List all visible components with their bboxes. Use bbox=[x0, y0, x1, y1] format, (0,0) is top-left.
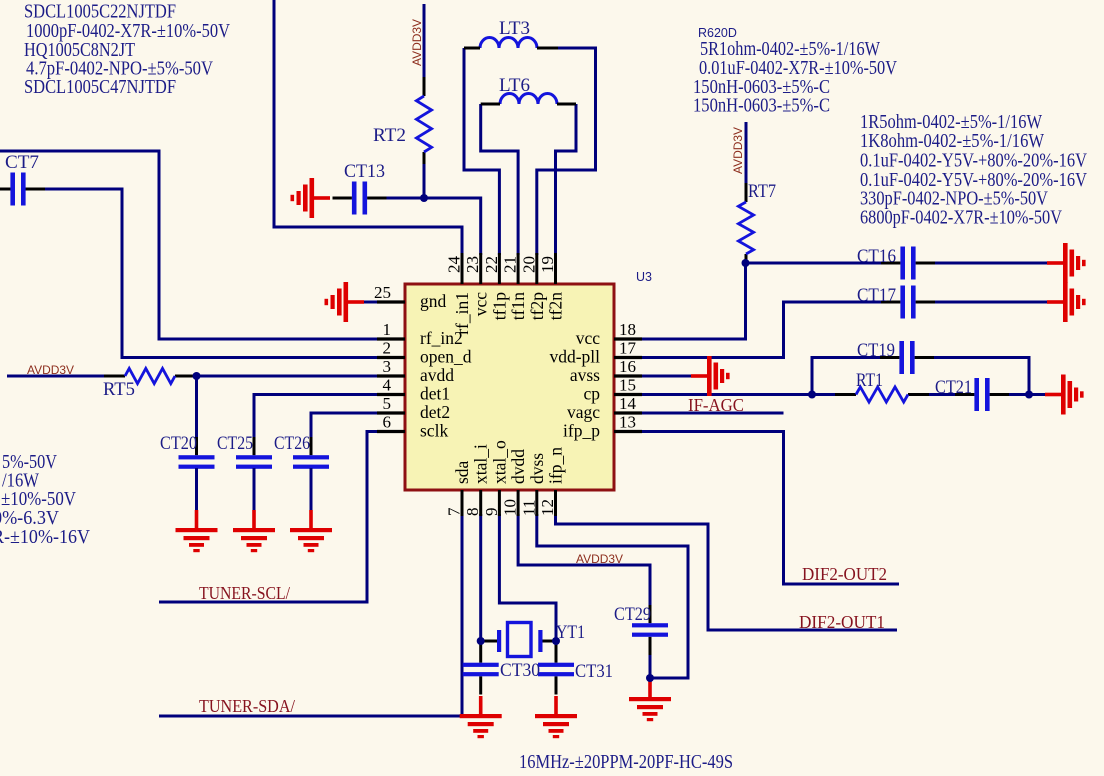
svg-text:11: 11 bbox=[519, 500, 538, 516]
svg-text:7: 7 bbox=[445, 507, 464, 516]
svg-text:LT6: LT6 bbox=[499, 76, 530, 96]
wire AVDD3V to RT5 bbox=[7, 375, 105, 378]
svg-text:tf2p: tf2p bbox=[527, 292, 547, 320]
IC top pin stubs bbox=[462, 253, 556, 284]
wire pin 4 (det1) to CT25 bbox=[254, 395, 379, 449]
svg-text:330pF-0402-NPO-±5%-50V: 330pF-0402-NPO-±5%-50V bbox=[860, 189, 1048, 210]
ground at CT16 bbox=[1047, 243, 1086, 283]
wire pin 10 (dvdd) AVDD3V to CT29 bbox=[518, 514, 650, 614]
wire top-left net down to pin 24 (rf_in1) bbox=[274, 0, 462, 255]
svg-text:CT29: CT29 bbox=[614, 605, 651, 625]
svg-text:ifp_p: ifp_p bbox=[563, 421, 600, 441]
inductor LT6 left pin bbox=[481, 103, 500, 106]
svg-text:xtal_i: xtal_i bbox=[471, 444, 491, 484]
svg-text:RT1: RT1 bbox=[856, 371, 883, 391]
op-amp U3 IC body bbox=[405, 284, 614, 490]
svg-text:16MHz-±20PPM-20PF-HC-49S: 16MHz-±20PPM-20PF-HC-49S bbox=[519, 752, 733, 773]
inductor LT3 left pin bbox=[464, 47, 480, 50]
svg-text:CT26: CT26 bbox=[274, 434, 310, 454]
svg-text:1K8ohm-0402-±5%-1/16W: 1K8ohm-0402-±5%-1/16W bbox=[860, 131, 1045, 152]
junction CT29/ground bbox=[646, 674, 654, 682]
svg-text:CT25: CT25 bbox=[217, 434, 253, 454]
svg-text:R620D: R620D bbox=[698, 26, 737, 40]
capacitor CT13 bbox=[333, 182, 387, 215]
svg-text:19: 19 bbox=[538, 256, 557, 273]
wire pin 8 (xtal_i) down to crystal left bbox=[479, 514, 482, 641]
svg-text:IF-AGC: IF-AGC bbox=[688, 395, 744, 415]
wire CT19 to right junction bbox=[934, 358, 1029, 395]
capacitor CT25 bbox=[236, 437, 272, 487]
svg-text:SDCL1005C22NJTDF: SDCL1005C22NJTDF bbox=[24, 2, 176, 23]
wire pin 15 (cp) to RT1 bbox=[612, 393, 835, 396]
wire loop-filter junction up to CT19 bbox=[812, 358, 880, 395]
svg-text:RT5: RT5 bbox=[103, 380, 135, 400]
junction crystal left bbox=[477, 637, 485, 645]
ground at pin 25 bbox=[325, 282, 365, 322]
resistor RT1 bbox=[835, 387, 929, 402]
capacitor CT29 bbox=[632, 605, 668, 655]
wire junction down to CT20 bbox=[195, 376, 198, 448]
svg-text:18: 18 bbox=[619, 320, 636, 339]
ground below CT25 bbox=[233, 510, 275, 552]
wire CT26 to ground bbox=[310, 468, 313, 510]
svg-text:R-±10%-16V: R-±10%-16V bbox=[0, 527, 90, 548]
svg-text:0.1uF-0402-Y5V-+80%-20%-16V: 0.1uF-0402-Y5V-+80%-20%-16V bbox=[860, 151, 1087, 172]
svg-text:rf_in1: rf_in1 bbox=[452, 292, 472, 335]
wire CT13 junction to pin 23 (vcc) bbox=[383, 198, 481, 255]
capacitor CT26 bbox=[293, 437, 329, 487]
capacitor CT7 bbox=[0, 173, 45, 206]
ground below CT31 bbox=[535, 696, 577, 738]
svg-text:16: 16 bbox=[619, 357, 636, 376]
svg-text:dvdd: dvdd bbox=[508, 449, 528, 484]
wire LT3 right leg to pin 20 (tf2p) bbox=[537, 48, 596, 255]
svg-text:13: 13 bbox=[619, 413, 636, 432]
svg-text:3: 3 bbox=[383, 357, 392, 376]
wire CT7 to pin 2 (open_d) bbox=[25, 189, 379, 358]
svg-text:tf1n: tf1n bbox=[508, 292, 528, 320]
capacitor CT19 bbox=[880, 341, 934, 374]
svg-text:1R5ohm-0402-±5%-1/16W: 1R5ohm-0402-±5%-1/16W bbox=[860, 112, 1042, 133]
svg-text:AVDD3V: AVDD3V bbox=[410, 19, 424, 66]
inductor LT3 bbox=[480, 38, 537, 48]
svg-text:CT7: CT7 bbox=[5, 153, 39, 173]
wire AVDD3V down to RT2 bbox=[423, 4, 426, 79]
wire RT5 to pin 3 (avdd) bbox=[196, 375, 379, 378]
svg-text:CT31: CT31 bbox=[575, 662, 613, 682]
wire CT25 to ground bbox=[253, 468, 256, 510]
svg-text:14: 14 bbox=[619, 394, 637, 413]
svg-text:1000pF-0402-X7R-±10%-50V: 1000pF-0402-X7R-±10%-50V bbox=[26, 21, 230, 42]
inductor LT6 right pin bbox=[557, 103, 576, 106]
svg-text:150nH-0603-±5%-C: 150nH-0603-±5%-C bbox=[693, 96, 830, 117]
svg-text:8: 8 bbox=[463, 508, 482, 517]
wire CT16 to ground bbox=[935, 262, 1047, 265]
svg-text:open_d: open_d bbox=[420, 347, 472, 367]
svg-text:RT7: RT7 bbox=[748, 182, 776, 202]
svg-text:6: 6 bbox=[383, 413, 392, 432]
capacitor CT31 bbox=[538, 645, 574, 695]
svg-text:AVDD3V: AVDD3V bbox=[731, 127, 745, 174]
junction RT5/pin3/CT20 bbox=[193, 372, 201, 380]
wire pin 17 (vdd-pll) to CT17 bbox=[612, 302, 881, 358]
junction RT2/CT13/pin23 bbox=[420, 194, 428, 202]
svg-text:17: 17 bbox=[619, 339, 637, 358]
wire CT29 to junction bbox=[649, 646, 652, 678]
wire CT7 left to sheet edge bbox=[0, 188, 11, 191]
ground below CT20 bbox=[176, 510, 218, 552]
svg-text:CT20: CT20 bbox=[160, 434, 197, 454]
svg-text:avss: avss bbox=[570, 365, 600, 385]
wire pin 9 (xtal_o) to crystal right bbox=[499, 514, 556, 641]
svg-text:5: 5 bbox=[383, 394, 392, 413]
svg-text:DIF2-OUT1: DIF2-OUT1 bbox=[799, 612, 885, 632]
svg-text:15: 15 bbox=[619, 376, 636, 395]
svg-text:cp: cp bbox=[583, 384, 600, 404]
wire TUNER-SDA to pin 7 (sda) bbox=[159, 514, 462, 716]
svg-text:1: 1 bbox=[383, 320, 392, 339]
wire net rf_in2 from CT7 top to pin 1 bbox=[0, 151, 379, 339]
capacitor CT17 bbox=[881, 286, 935, 319]
resistor RT7 bbox=[738, 183, 753, 266]
wire RT2 to junction bbox=[423, 164, 426, 198]
svg-text:vdd-pll: vdd-pll bbox=[549, 347, 600, 367]
svg-text:ifp_n: ifp_n bbox=[546, 447, 566, 484]
svg-text:YT1: YT1 bbox=[556, 623, 585, 643]
capacitor CT16 bbox=[881, 247, 935, 280]
wire CT20 to ground bbox=[195, 468, 198, 510]
ground below CT30 bbox=[460, 696, 502, 738]
inductor LT6 bbox=[500, 94, 557, 105]
IC right pin stubs bbox=[614, 339, 642, 432]
svg-text:23: 23 bbox=[463, 256, 482, 273]
svg-text:DIF2-OUT2: DIF2-OUT2 bbox=[802, 564, 887, 584]
wire pin 6 (sclk) to TUNER-SCL bbox=[159, 432, 379, 603]
junction crystal right bbox=[552, 637, 560, 645]
wire ground to pin 25 bbox=[364, 301, 379, 304]
svg-text:9: 9 bbox=[482, 508, 501, 517]
svg-text:AVDD3V: AVDD3V bbox=[576, 552, 623, 566]
capacitor CT30 bbox=[463, 645, 499, 695]
ground at pin 16 avss bbox=[691, 356, 730, 396]
wire LT3 left leg to pin 22 (tf1p) bbox=[464, 48, 499, 255]
svg-text:vcc: vcc bbox=[471, 292, 491, 317]
wire pin 5 (det2) to CT26 bbox=[311, 413, 379, 448]
svg-text:22: 22 bbox=[482, 256, 501, 273]
svg-text:AVDD3V: AVDD3V bbox=[27, 363, 74, 377]
junction cp/RT1/CT19 bbox=[808, 391, 816, 399]
svg-text:2: 2 bbox=[383, 339, 392, 358]
svg-text:±10%-50V: ±10%-50V bbox=[1, 489, 76, 510]
svg-text:LT3: LT3 bbox=[499, 19, 530, 39]
wire pin 11 (dvss) to CT29 bottom bbox=[537, 514, 688, 678]
wire pin 16 (avss) to ground bbox=[612, 375, 691, 378]
svg-text:vcc: vcc bbox=[576, 328, 601, 348]
wire CT17 to ground bbox=[935, 301, 1047, 304]
ground at CT13 bbox=[291, 178, 331, 218]
ground at CT21 bbox=[1045, 375, 1084, 415]
svg-text:CT13: CT13 bbox=[344, 162, 385, 182]
IC left pin stubs bbox=[377, 302, 405, 432]
capacitor CT20 bbox=[179, 437, 215, 487]
IC bottom pin stubs bbox=[462, 490, 556, 516]
svg-text:0%-6.3V: 0%-6.3V bbox=[0, 508, 59, 529]
svg-text:CT21: CT21 bbox=[935, 378, 972, 398]
svg-text:CT30: CT30 bbox=[500, 661, 540, 681]
svg-text:20: 20 bbox=[519, 256, 538, 273]
wire pin 13 (ifp_p) to DIF2-OUT2 bbox=[612, 432, 899, 585]
wire pin 14 (vagc) IF-AGC stub bbox=[612, 412, 784, 415]
svg-text:25: 25 bbox=[374, 283, 391, 302]
svg-text:21: 21 bbox=[501, 256, 520, 273]
junction CT21/CT19/ground bbox=[1025, 391, 1033, 399]
svg-text:vagc: vagc bbox=[567, 402, 600, 422]
svg-text:det2: det2 bbox=[420, 402, 450, 422]
svg-text:avdd: avdd bbox=[420, 365, 454, 385]
wire junction to CT16 bbox=[746, 262, 882, 265]
wire LT6 left leg to pin 21 (tf1n) bbox=[481, 104, 518, 255]
wire CT21 to ground junction bbox=[1009, 393, 1045, 396]
svg-text:5R1ohm-0402-±5%-1/16W: 5R1ohm-0402-±5%-1/16W bbox=[700, 39, 880, 60]
svg-text:4: 4 bbox=[383, 376, 392, 395]
svg-text:gnd: gnd bbox=[420, 291, 447, 311]
ground at CT17 bbox=[1047, 282, 1086, 322]
svg-text:24: 24 bbox=[445, 256, 464, 274]
ground below CT26 bbox=[290, 510, 332, 552]
svg-text:SDCL1005C47NJTDF: SDCL1005C47NJTDF bbox=[24, 77, 176, 98]
crystal YT1 bbox=[481, 623, 556, 657]
svg-text:10: 10 bbox=[501, 499, 520, 516]
svg-text:CT16: CT16 bbox=[857, 247, 896, 267]
wire pin 12 (ifp_n) to DIF2-OUT1 bbox=[556, 514, 898, 630]
inductor LT3 right pin bbox=[537, 47, 558, 50]
svg-text:sclk: sclk bbox=[420, 421, 448, 441]
svg-text:xtal_o: xtal_o bbox=[489, 440, 509, 484]
svg-text:U3: U3 bbox=[636, 270, 652, 284]
svg-text:tf2n: tf2n bbox=[546, 292, 566, 320]
svg-text:0.01uF-0402-X7R-±10%-50V: 0.01uF-0402-X7R-±10%-50V bbox=[699, 58, 897, 79]
wire LT6 right leg to pin 19 (tf2n) bbox=[556, 104, 577, 255]
wire AVDD3V down to RT7 bbox=[745, 122, 748, 185]
svg-text:tf1p: tf1p bbox=[489, 292, 509, 320]
svg-text:sda: sda bbox=[452, 460, 472, 484]
svg-text:6800pF-0402-X7R-±10%-50V: 6800pF-0402-X7R-±10%-50V bbox=[860, 208, 1062, 229]
resistor RT5 bbox=[104, 368, 196, 383]
svg-text:CT17: CT17 bbox=[857, 286, 896, 306]
resistor RT2 bbox=[416, 77, 431, 164]
wire RT1 to CT21 bbox=[929, 393, 955, 396]
ground below CT29 bbox=[629, 679, 671, 721]
svg-text:12: 12 bbox=[538, 499, 557, 516]
wire pin 18 (vcc) up to RT7 junction bbox=[612, 263, 746, 339]
svg-text:RT2: RT2 bbox=[373, 126, 406, 146]
junction RT7/CT16/pin18 bbox=[742, 259, 750, 267]
svg-text:det1: det1 bbox=[420, 384, 450, 404]
capacitor CT21 bbox=[955, 378, 1009, 411]
svg-text:TUNER-SDA/: TUNER-SDA/ bbox=[199, 696, 295, 716]
svg-text:dvss: dvss bbox=[527, 453, 547, 484]
svg-text:CT19: CT19 bbox=[857, 341, 895, 361]
svg-text:TUNER-SCL/: TUNER-SCL/ bbox=[199, 583, 290, 603]
